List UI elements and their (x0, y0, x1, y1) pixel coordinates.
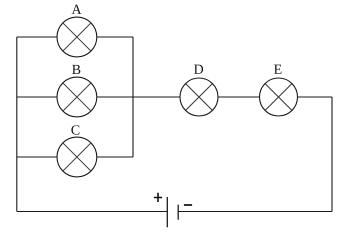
wire right vertical bus (331, 97, 333, 212)
label C (71, 125, 79, 134)
lamp C (57, 137, 97, 177)
battery positive plate (long) (166, 197, 168, 227)
wire left vertical bus (16, 37, 18, 212)
label B (72, 65, 80, 74)
wire C-row left segment (17, 156, 57, 158)
label A (72, 5, 82, 14)
wire B-to-D segment (97, 96, 180, 98)
wire A-row right segment (97, 36, 133, 38)
lamp B (57, 77, 97, 117)
lamp A (57, 17, 97, 57)
wire bottom rail left segment (17, 211, 168, 213)
label E (274, 65, 281, 74)
lamp E (260, 78, 298, 116)
battery plus sign (154, 193, 162, 202)
lamp D (180, 78, 218, 116)
wire bottom rail right segment (178, 211, 332, 213)
battery minus sign (184, 204, 192, 206)
wire B-row left segment (17, 96, 57, 98)
wire E-to-right segment (298, 96, 333, 98)
wire A-row left segment (17, 36, 57, 38)
wire C-row right segment (97, 156, 133, 158)
label D (194, 65, 203, 74)
wire D-to-E segment (218, 96, 260, 98)
wire parallel-block right vertical (132, 37, 134, 157)
battery negative plate (short) (177, 205, 179, 220)
